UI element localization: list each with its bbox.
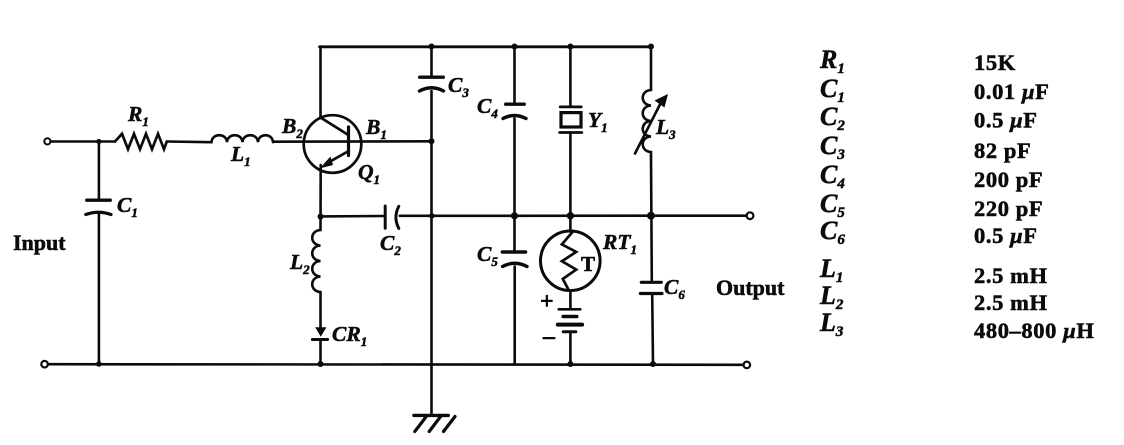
svg-text:L1: L1: [230, 142, 251, 169]
thermistor RT1: [541, 231, 601, 291]
variable inductor L3: [635, 90, 668, 156]
svg-text:480–800 μH: 480–800 μH: [974, 318, 1094, 343]
capacitor C1: [86, 142, 111, 365]
battery BT1: [558, 309, 582, 332]
wire C6 to bottom rail: [651, 294, 654, 365]
capacitor C4: [503, 104, 526, 118]
svg-text:200 pF: 200 pF: [974, 167, 1043, 192]
svg-text:Input: Input: [13, 230, 66, 255]
node top rail/C4 line: [512, 44, 518, 50]
wire RT1 to battery: [569, 291, 572, 309]
top rail: [320, 45, 651, 48]
svg-text:B1: B1: [365, 115, 387, 142]
node top rail/Y1 line: [567, 44, 573, 50]
input-bottom terminal: [41, 361, 48, 368]
svg-text:2.5 mH: 2.5 mH: [974, 263, 1048, 288]
wire R1 to L1: [167, 140, 212, 143]
node C3 line/output line: [429, 213, 435, 219]
parts list labels: [819, 45, 845, 340]
svg-text:RT1: RT1: [602, 230, 637, 257]
svg-text:C3: C3: [448, 73, 469, 100]
svg-text:C3: C3: [820, 131, 845, 163]
svg-text:2.5 mH: 2.5 mH: [974, 290, 1048, 315]
parts list values: [974, 50, 1094, 343]
wire C2 to output terminal: [400, 214, 747, 217]
svg-text:R1: R1: [819, 45, 845, 77]
svg-text:L3: L3: [655, 115, 676, 142]
svg-text:–: –: [542, 324, 556, 350]
svg-text:C5: C5: [477, 242, 498, 269]
wire C2 branch from emitter node: [321, 215, 384, 218]
svg-text:CR1: CR1: [332, 322, 367, 349]
node top rail/C3 line: [429, 44, 435, 50]
node C1/bottom rail: [96, 361, 102, 367]
output-bottom terminal: [744, 362, 751, 369]
node L2/C2 junction: [318, 214, 324, 220]
wire CR1 to bottom rail: [319, 341, 322, 364]
capacitor C5: [502, 252, 527, 267]
svg-text:C2: C2: [380, 231, 401, 258]
wire L2 to CR1: [319, 292, 322, 328]
node input/C1 junction: [96, 139, 101, 144]
wire C3 down through junctions to ground: [430, 91, 433, 415]
svg-text:+: +: [540, 289, 554, 315]
wire C4 to C5: [513, 119, 516, 251]
capacitor C6: [640, 282, 662, 293]
capacitor C3: [420, 77, 444, 91]
svg-text:Q1: Q1: [358, 160, 380, 187]
inductor L2: [312, 230, 320, 292]
output terminal: [747, 212, 754, 219]
svg-text:82 pF: 82 pF: [974, 138, 1031, 163]
svg-text:L2: L2: [289, 250, 310, 277]
node C3 line/transistor line: [429, 138, 435, 144]
wire L3 to C6: [650, 156, 653, 281]
svg-text:C4: C4: [477, 94, 498, 121]
node L3 line/output line: [647, 212, 655, 220]
svg-text:C6: C6: [664, 275, 685, 302]
wire Y1 to RT1: [569, 134, 572, 232]
capacitor C2: [385, 206, 399, 228]
wire top rail to C4: [513, 47, 516, 104]
diode CR1: [312, 327, 327, 339]
node top rail/L3 line: [648, 44, 654, 50]
svg-text:Y1: Y1: [588, 108, 608, 135]
input terminal: [44, 138, 50, 144]
svg-text:C1: C1: [117, 193, 138, 220]
node Y1 line/output line: [567, 212, 574, 219]
wire top rail to L3: [650, 47, 653, 91]
node C4 line/output line: [511, 212, 518, 219]
wire top rail to C3: [430, 47, 433, 77]
inductor L1: [212, 135, 274, 142]
node battery/bottom rail: [567, 361, 573, 367]
wire top rail to Y1: [569, 47, 572, 107]
node CR1/bottom rail: [318, 361, 324, 367]
svg-text:220 pF: 220 pF: [974, 196, 1043, 221]
wire input to R1: [51, 140, 115, 143]
svg-text:0.01 μF: 0.01 μF: [974, 79, 1049, 104]
ground: [414, 415, 455, 431]
svg-text:C2: C2: [820, 102, 845, 134]
bottom rail: [48, 363, 743, 366]
crystal Y1: [560, 107, 582, 133]
wire C5 to bottom rail: [513, 267, 516, 365]
resistor R1: [115, 134, 167, 149]
svg-text:T: T: [581, 252, 595, 276]
svg-text:C4: C4: [820, 160, 845, 192]
wire L1 to junction at C3 line (through transistor): [273, 140, 432, 143]
node C6/bottom rail: [650, 361, 656, 367]
wire transistor emitter down to L2: [319, 165, 322, 230]
wire top rail to transistor: [319, 47, 322, 119]
svg-text:0.5 μF: 0.5 μF: [974, 108, 1038, 133]
svg-text:Output: Output: [716, 275, 785, 300]
wire battery to bottom rail: [569, 332, 572, 364]
svg-text:R1: R1: [127, 102, 149, 129]
svg-text:15K: 15K: [974, 50, 1016, 75]
transistor Q1: [304, 115, 362, 173]
svg-text:B2: B2: [281, 114, 303, 141]
svg-text:0.5 μF: 0.5 μF: [974, 223, 1038, 248]
